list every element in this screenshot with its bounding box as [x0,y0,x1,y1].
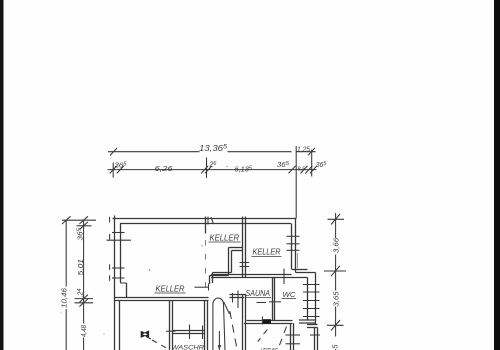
svg-text:10,46: 10,46 [62,288,69,308]
door threshold block [263,319,271,324]
svg-text:KELLER: KELLER [210,234,240,243]
right jog outer horizontal [296,272,316,274]
dim extension line at x=311.7 [311,150,313,177]
middle wall left part [115,297,209,299]
paper speckles [149,269,151,271]
dim row1 right tick slash [308,148,315,156]
SAUNA / WC divider wall pair [272,278,274,321]
left inner chain tick dashes [77,225,92,227]
wall below WC with window [290,323,292,350]
scanner black bar left [0,0,4,350]
right bay window rungs [303,284,320,286]
WC door tick in that wall [283,269,285,285]
second tick of that wall crossing top wall [207,217,209,225]
stair west wall pair below [204,301,206,350]
walking line with arrow [218,331,220,350]
door leaf in left stair wall [195,286,209,288]
underline KELLER top-right [252,256,282,258]
svg-text:4,48: 4,48 [81,325,88,337]
middle wall right part [230,294,247,296]
stair walking-line arch [213,298,225,350]
WASCHK partition wall [173,330,205,332]
dashed line from drain [152,340,168,349]
dim row2 extension line at x=206.5 [206,158,208,179]
door post tick [261,316,263,324]
svg-text:WASCHR.: WASCHR. [172,345,207,350]
wash room west wall pair [169,301,171,350]
svg-text:KELLER: KELLER [253,248,281,257]
svg-text:3,65: 3,65 [334,291,341,306]
left wall inner line lower [119,301,121,350]
underline KELLER left [155,292,186,294]
top wall outer line [113,218,297,220]
window rung [112,232,125,234]
right wall inner line [291,224,293,270]
diagonal at arc right [224,302,230,314]
underline WC [282,298,297,300]
dim row1 line right segment [228,151,292,153]
label underlines [155,242,297,299]
window rung [112,267,125,269]
door post [208,284,210,291]
dim row2 line [108,169,317,171]
SAUNA left wall pair [242,295,244,350]
small slash on top wall [211,217,214,224]
right chain line segments [335,213,337,238]
dashed door swing lower room A [258,330,268,342]
dim extension line at building right edge x=296 [295,146,297,219]
dim row1 line left segment [108,151,200,153]
window sill long [107,239,132,241]
wall between top-left and top-centre KELLER, solid part [205,217,207,234]
faint stub on right wall [297,253,299,268]
dim row1 short line right of building edge [296,151,315,153]
svg-text:HEIZUNG: HEIZUNG [261,346,278,350]
svg-text:SAUNA: SAUNA [246,289,271,298]
rung on west wall [166,330,176,332]
top wall inner line [120,223,291,225]
window extension dashes at x=109.6 [109,217,111,223]
left chains top connector dash [62,219,96,221]
window rung [112,277,125,279]
left inner chain ticks [79,216,88,224]
underline KELLER top-centre [209,241,241,243]
left wall inner jog [121,282,127,284]
svg-text:5,01: 5,01 [78,259,85,276]
right chain tick slashes [331,214,340,225]
partition ticks [189,325,191,340]
svg-text:1,25: 1,25 [297,147,310,154]
arrowhead blob [218,345,222,350]
dim row2 tick slashes [110,166,117,174]
stair enclosure Z-wall [229,247,244,249]
left outer chain line (10,46) [65,220,67,287]
right jog inner horizontal [292,269,308,271]
svg-text:3,66: 3,66 [334,238,341,253]
svg-text:6,26: 6,26 [155,166,173,173]
svg-text:WC: WC [283,292,297,299]
left inner chain line [83,220,85,324]
door ticks on that wall [240,262,250,264]
dashed door swing by stairs [230,311,237,348]
window rungs [286,334,301,336]
right chain tick dashes [328,218,345,220]
left wall inner line upper [120,224,122,284]
stair door post B [237,291,239,309]
svg-text:5: 5 [333,345,340,349]
lower right corner wall pair [314,328,316,350]
big horizontal wall over SAUNA/WC [211,274,292,276]
dim row2 extension line at x=113 [112,163,114,178]
left wall outer line [114,216,116,350]
scanner black bar right [494,0,500,350]
left outer chain top tick [62,216,71,224]
lower right window rung [310,334,320,336]
underline SAUNA [245,297,272,299]
right wall outer line [295,219,297,273]
dashed door swing lower room B [279,327,287,347]
floor drain symbol [141,331,149,338]
sauna bench tick [257,302,267,304]
WC bottom wall [247,320,293,322]
dim row1 left tick slash [110,148,117,156]
bay bottom step horizontals [307,324,318,326]
same wall dashed continuation [205,240,207,295]
right bay outer wall [315,273,317,325]
wall between top-centre and top-right KELLER [242,217,244,278]
stair door post A [232,293,234,303]
right bay inner wall [307,278,309,321]
svg-text:8,5: 8,5 [298,167,307,173]
svg-text:KELLER: KELLER [156,285,185,294]
